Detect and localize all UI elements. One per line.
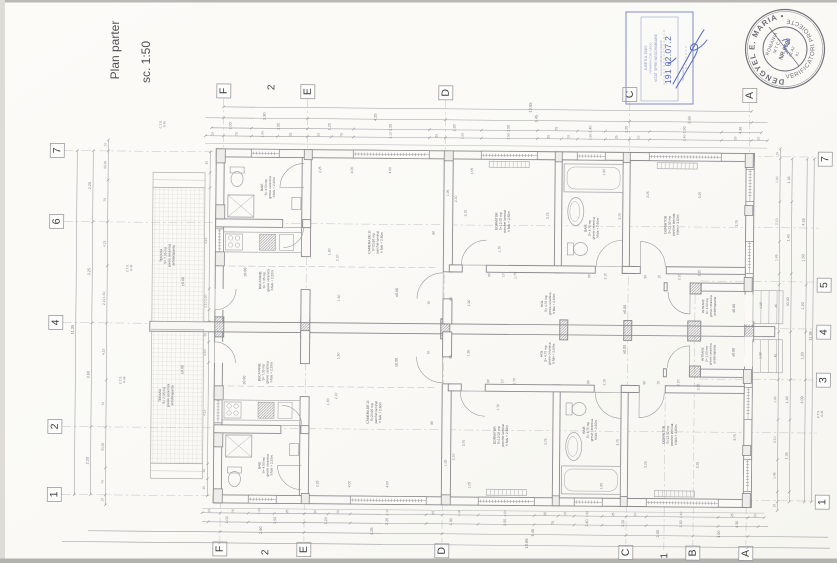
svg-text:4.30: 4.30 [738, 127, 742, 134]
svg-text:2.25: 2.25 [315, 480, 319, 487]
interior wall kitchen/living x301 [299, 397, 309, 496]
svg-text:1.00: 1.00 [460, 133, 464, 140]
svg-text:1.40: 1.40 [787, 234, 791, 241]
svg-text:2.20: 2.20 [86, 457, 90, 464]
dimension chain top row3 [212, 128, 762, 133]
dimension chain top row2 [206, 118, 768, 123]
dimension chain terrace side x209 [207, 152, 210, 496]
entrance porch top unit [753, 291, 783, 324]
axis markers right [818, 152, 832, 166]
bath2 sink [568, 197, 584, 225]
svg-text:10: 10 [756, 137, 760, 141]
party wall columns [215, 317, 224, 337]
svg-text:1.50: 1.50 [276, 123, 280, 130]
svg-text:±0.00: ±0.00 [181, 277, 185, 286]
svg-text:1.50: 1.50 [506, 125, 510, 132]
entry vestibule wall y278 [663, 369, 666, 377]
interior wall D-axis x437 [443, 159, 453, 272]
svg-text:7: 7 [51, 147, 63, 153]
svg-text:5.45: 5.45 [530, 529, 535, 537]
radiators [486, 489, 526, 495]
svg-text:JUDETUL TIMIS: JUDETUL TIMIS [644, 45, 648, 71]
svg-text:h fals + 2.20m: h fals + 2.20m [272, 177, 276, 197]
left wall terrace door unit2 [214, 342, 223, 363]
svg-text:-0.45: -0.45 [162, 121, 166, 128]
svg-text:3.50: 3.50 [687, 115, 692, 123]
svg-text:3.75: 3.75 [735, 220, 739, 227]
stamp blue scribble [782, 40, 790, 55]
svg-text:-0.45: -0.45 [820, 410, 824, 417]
svg-text:75: 75 [554, 127, 558, 131]
svg-text:1.70: 1.70 [513, 272, 517, 279]
svg-text:1.30: 1.30 [449, 518, 453, 525]
svg-text:1.30: 1.30 [759, 352, 763, 359]
right wall entrance gap bottom unit [744, 336, 753, 366]
svg-text:3.25: 3.25 [696, 462, 700, 469]
svg-text:1: 1 [48, 491, 60, 497]
blue approval stamp [626, 12, 693, 104]
svg-text:30,30: 30,30 [786, 297, 790, 306]
svg-text:90: 90 [642, 381, 646, 385]
svg-text:±0.00: ±0.00 [732, 304, 736, 313]
interior wall bath-left x554 [554, 160, 562, 273]
svg-text:1.20: 1.20 [624, 126, 628, 133]
round verifier stamp [746, 10, 825, 89]
building bottom exterior wall [213, 495, 751, 508]
svg-text:sc. 1:50: sc. 1:50 [139, 41, 153, 83]
axis markers bottom [213, 542, 227, 556]
door arcs bottom unit [460, 391, 485, 416]
svg-text:10: 10 [313, 510, 317, 514]
svg-text:1.50: 1.50 [588, 134, 592, 141]
svg-text:h fals + 2.60m: h fals + 2.60m [596, 218, 600, 238]
terrace bottom unit hatched [151, 329, 204, 463]
svg-text:-0.45: -0.45 [122, 376, 126, 383]
axis markers top [217, 84, 231, 98]
svg-text:25: 25 [730, 513, 734, 517]
svg-text:1.05: 1.05 [446, 189, 450, 196]
svg-text:2.40: 2.40 [585, 519, 589, 526]
svg-text:4: 4 [50, 319, 62, 325]
svg-text:10: 10 [100, 498, 104, 502]
svg-text:±0.00: ±0.00 [180, 365, 184, 374]
svg-text:5: 5 [818, 282, 830, 288]
svg-text:10: 10 [772, 504, 776, 508]
svg-text:65: 65 [449, 297, 453, 301]
svg-text:1.35: 1.35 [785, 452, 789, 459]
svg-text:1.30: 1.30 [467, 350, 471, 357]
svg-text:10: 10 [207, 509, 211, 513]
interior wall bath-right x622 [620, 385, 628, 498]
svg-text:3.75: 3.75 [544, 438, 548, 445]
svg-text:h fals + 2.60m: h fals + 2.60m [505, 425, 509, 446]
svg-text:4.25: 4.25 [802, 218, 806, 225]
svg-text:1.40: 1.40 [785, 396, 789, 403]
svg-text:3.25: 3.25 [87, 268, 91, 275]
svg-text:1.30: 1.30 [467, 300, 471, 307]
svg-text:10: 10 [753, 514, 757, 518]
bottom wall windows [248, 495, 276, 503]
svg-text:1.20: 1.20 [324, 517, 328, 524]
svg-text:1.60: 1.60 [327, 248, 331, 255]
svg-text:4.15: 4.15 [102, 240, 106, 247]
entrance porch bottom unit [752, 340, 782, 373]
svg-text:2.25: 2.25 [697, 270, 701, 277]
svg-text:4: 4 [818, 329, 830, 335]
svg-text:1.50: 1.50 [679, 520, 683, 527]
svg-text:25: 25 [543, 512, 547, 516]
exterior wall column accents [213, 489, 222, 503]
svg-text:h fals + 2.60m: h fals + 2.60m [676, 214, 680, 235]
terrace bottom unit step strip [150, 463, 202, 478]
bath2 tub [564, 164, 623, 193]
svg-text:1.70: 1.70 [496, 404, 500, 411]
svg-text:10: 10 [501, 273, 505, 277]
hall wall y262 [448, 384, 461, 391]
grid axis lines vertical [220, 98, 750, 551]
svg-text:45: 45 [774, 354, 778, 358]
svg-text:10: 10 [316, 133, 320, 137]
radiators [489, 161, 529, 167]
svg-text:2.10: 2.10 [603, 273, 607, 280]
svg-text:30: 30 [205, 161, 209, 165]
svg-text:4.00: 4.00 [347, 481, 351, 488]
svg-text:4.25: 4.25 [373, 113, 378, 121]
svg-text:A: A [744, 92, 756, 99]
svg-text:4.00: 4.00 [385, 481, 389, 488]
svg-text:1.05: 1.05 [467, 482, 471, 489]
svg-text:E: E [302, 88, 314, 95]
svg-text:6: 6 [51, 218, 63, 224]
svg-text:1.00: 1.00 [260, 131, 264, 138]
svg-text:±0.00: ±0.00 [623, 345, 627, 354]
blue signature flourish [668, 30, 707, 88]
svg-text:30,30: 30,30 [101, 443, 105, 451]
svg-text:25: 25 [285, 509, 289, 513]
svg-text:10: 10 [775, 152, 779, 156]
dimension chain bottom row1 small [202, 513, 764, 518]
svg-text:90: 90 [643, 275, 647, 279]
axis markers left [50, 143, 64, 157]
svg-text:h fals + 2.60m: h fals + 2.60m [378, 402, 382, 423]
dimension chain right col3 [804, 159, 807, 502]
svg-text:1.90: 1.90 [682, 126, 686, 133]
svg-text:3.60: 3.60 [86, 371, 90, 378]
dimension chain right col2 [789, 159, 792, 502]
svg-text:2.90: 2.90 [258, 526, 263, 534]
kitchen counter [223, 232, 301, 253]
svg-text:75: 75 [234, 132, 238, 136]
svg-text:25: 25 [614, 135, 618, 139]
svg-text:h fals + 2.60m: h fals + 2.60m [674, 424, 678, 445]
hall wall y262 [449, 265, 462, 272]
svg-text:1.00: 1.00 [225, 516, 229, 523]
svg-text:h fals + 2.20m: h fals + 2.20m [269, 362, 273, 382]
svg-text:1.90: 1.90 [599, 483, 603, 490]
svg-text:2.10: 2.10 [773, 436, 777, 443]
svg-text:10: 10 [636, 136, 640, 140]
svg-text:10: 10 [566, 135, 570, 139]
svg-text:2.25: 2.25 [696, 384, 700, 391]
svg-text:2.40: 2.40 [682, 135, 686, 142]
svg-text:1.50: 1.50 [506, 133, 510, 140]
svg-text:1.20: 1.20 [801, 302, 805, 309]
svg-text:1.50: 1.50 [337, 294, 341, 301]
svg-text:2: 2 [49, 423, 61, 429]
svg-text:3.75: 3.75 [464, 210, 468, 217]
svg-text:191 02.07.2: 191 02.07.2 [663, 36, 673, 84]
interior wall kitchen/living x301 [301, 158, 311, 257]
svg-text:4.00: 4.00 [350, 167, 354, 174]
svg-text:3.25: 3.25 [644, 461, 648, 468]
svg-text:1.00: 1.00 [228, 122, 232, 129]
bath1 shower [228, 195, 254, 217]
svg-text:3.25: 3.25 [698, 192, 702, 199]
svg-text:7: 7 [819, 156, 831, 162]
svg-text:h fals + 2.60m: h fals + 2.60m [552, 293, 556, 313]
dimension chain left col1 overall 11.35 [74, 151, 77, 495]
svg-text:1.70: 1.70 [497, 246, 501, 253]
svg-text:4.15: 4.15 [102, 348, 106, 355]
exterior wall column accents [216, 149, 225, 163]
svg-text:90: 90 [486, 379, 490, 383]
svg-text:3.75: 3.75 [618, 213, 622, 220]
svg-text:1: 1 [816, 499, 828, 505]
svg-text:3.75: 3.75 [616, 439, 620, 446]
svg-text:2.10: 2.10 [335, 254, 339, 261]
svg-text:11.35: 11.35 [70, 325, 75, 334]
svg-text:antiderapanta: antiderapanta [713, 296, 717, 315]
interior wall bath-left x554 [552, 385, 560, 498]
left wall kitchen window bottom unit [214, 393, 222, 423]
svg-text:30,30: 30,30 [103, 161, 107, 169]
svg-text:1.50: 1.50 [102, 291, 106, 298]
svg-text:h fals + 2.60m: h fals + 2.60m [594, 420, 598, 440]
terrace top unit hatched [152, 187, 205, 321]
svg-text:1.00: 1.00 [775, 176, 779, 183]
svg-text:65: 65 [448, 355, 452, 359]
left wall terrace door unit1 [214, 289, 223, 310]
svg-text:25: 25 [434, 134, 438, 138]
svg-text:1.45: 1.45 [774, 254, 778, 261]
eave line below bottom wall [202, 508, 764, 513]
left wall kitchen window top unit [215, 229, 223, 259]
svg-text:2.10: 2.10 [454, 196, 458, 203]
svg-text:2.10: 2.10 [676, 379, 680, 386]
svg-text:45: 45 [774, 304, 778, 308]
bath2 tub [561, 466, 620, 495]
title: Plan parter sc 1:50 [108, 21, 153, 83]
svg-text:Plan parter: Plan parter [108, 21, 122, 80]
svg-text:C: C [620, 548, 632, 556]
svg-text:25: 25 [202, 486, 206, 490]
svg-text:1.50: 1.50 [273, 517, 277, 524]
svg-text:5.45: 5.45 [534, 115, 539, 123]
svg-text:±0.00: ±0.00 [394, 358, 398, 367]
svg-text:2.40: 2.40 [588, 125, 592, 132]
svg-text:4.00: 4.00 [800, 396, 804, 403]
svg-text:4.30: 4.30 [735, 521, 739, 528]
svg-text:2.10: 2.10 [388, 132, 392, 139]
svg-text:1.60: 1.60 [326, 398, 330, 405]
svg-text:4.00: 4.00 [388, 167, 392, 174]
svg-text:70: 70 [101, 402, 105, 406]
dimension chain top row4 small [205, 136, 767, 141]
svg-text:2.10: 2.10 [334, 392, 338, 399]
svg-text:1.35: 1.35 [787, 176, 791, 183]
svg-text:antiderapanta: antiderapanta [171, 245, 175, 265]
door arcs top unit [461, 240, 486, 265]
entry vestibule wall y278 [664, 283, 667, 291]
svg-text:90: 90 [587, 274, 591, 278]
right wall windows [746, 169, 754, 201]
svg-text:A: A [740, 550, 752, 557]
svg-text:2.10: 2.10 [452, 453, 456, 460]
dimension chain bottom row2 [202, 522, 768, 527]
bath2 toilet [566, 403, 572, 415]
svg-text:10: 10 [633, 512, 637, 516]
grid axis lines horizontal [61, 151, 819, 502]
svg-text:70: 70 [427, 351, 431, 355]
svg-text:1.50: 1.50 [716, 530, 721, 538]
terrace top unit step strip [153, 172, 205, 187]
svg-text:1.45: 1.45 [772, 472, 776, 479]
svg-text:1.05: 1.05 [444, 459, 448, 466]
svg-text:70: 70 [103, 198, 107, 202]
svg-text:h fals + 2.60m: h fals + 2.60m [507, 211, 511, 232]
dimension chain right col1 small [777, 149, 780, 511]
svg-text:3.75: 3.75 [462, 440, 466, 447]
scan edge bottom [0, 559, 837, 563]
svg-text:2.00: 2.00 [655, 529, 660, 537]
svg-text:25: 25 [431, 511, 435, 515]
bath1 toilet [231, 171, 243, 186]
svg-text:E: E [298, 546, 310, 553]
svg-text:F: F [214, 546, 226, 553]
svg-text:1.20: 1.20 [801, 352, 805, 359]
interior wall bath-right x622 [622, 160, 630, 273]
svg-text:2: 2 [266, 84, 277, 90]
svg-text:2.25: 2.25 [385, 518, 389, 525]
svg-text:±0.00: ±0.00 [732, 348, 736, 357]
bath/kitchen divider y218 [216, 219, 283, 228]
svg-text:F: F [218, 88, 230, 95]
interior wall D-axis x437 [441, 384, 451, 497]
bath1 sink [290, 443, 299, 455]
central party wall [150, 321, 775, 336]
svg-text:±0.00: ±0.00 [623, 305, 627, 314]
bath2 toilet [567, 243, 573, 255]
dimension chain top overall 13.65 [224, 107, 752, 112]
svg-text:antiderapanta: antiderapanta [712, 344, 716, 363]
svg-text:h fals + 2.60m: h fals + 2.60m [551, 343, 555, 363]
svg-text:±0.00: ±0.00 [395, 288, 399, 297]
stamp pen line [769, 27, 799, 66]
svg-text:25: 25 [288, 132, 292, 136]
svg-text:1.20: 1.20 [621, 520, 625, 527]
svg-text:1.05: 1.05 [470, 168, 474, 175]
svg-text:2.25: 2.25 [388, 124, 392, 131]
svg-text:10: 10 [500, 379, 504, 383]
dimension chain left col3 [105, 140, 108, 505]
svg-text:80: 80 [432, 231, 436, 235]
building left exterior wall [213, 149, 224, 503]
bath/kitchen divider y218 [214, 425, 281, 434]
svg-text:10: 10 [563, 512, 567, 516]
svg-text:1.55: 1.55 [503, 519, 507, 526]
svg-text:80: 80 [430, 421, 434, 425]
svg-text:1: 1 [659, 552, 670, 558]
svg-text:1.50: 1.50 [801, 254, 805, 261]
svg-text:25: 25 [546, 135, 550, 139]
svg-text:70: 70 [427, 301, 431, 305]
svg-text:13.65: 13.65 [524, 538, 529, 549]
svg-text:90: 90 [586, 380, 590, 384]
svg-text:h fals + 2.60m: h fals + 2.60m [380, 232, 384, 253]
svg-text:2.10: 2.10 [102, 298, 106, 305]
svg-text:25: 25 [733, 136, 737, 140]
svg-text:1.90: 1.90 [602, 169, 606, 176]
bath1 toilet [228, 471, 240, 486]
svg-text:75: 75 [336, 510, 340, 514]
svg-text:3.75: 3.75 [733, 434, 737, 441]
svg-text:75: 75 [551, 521, 555, 525]
building top exterior wall [216, 149, 754, 162]
dimension chain bottom row3 [88, 531, 828, 537]
dimension chain right col4 overall 11.35 [811, 159, 814, 502]
bath2 sink [566, 432, 582, 460]
svg-text:B: B [687, 549, 699, 556]
svg-text:3.75: 3.75 [546, 212, 550, 219]
kitchen counter [222, 400, 300, 421]
svg-text:±0.00: ±0.00 [243, 268, 247, 277]
svg-text:1.00: 1.00 [773, 396, 777, 403]
svg-text:1.70: 1.70 [512, 378, 516, 385]
eave line above top wall [205, 143, 767, 148]
svg-text:1.30: 1.30 [759, 302, 763, 309]
svg-text:75: 75 [339, 133, 343, 137]
scan edge left [0, 0, 5, 563]
svg-text:13.65: 13.65 [528, 102, 533, 113]
top wall windows [251, 149, 279, 157]
svg-text:2.10: 2.10 [775, 218, 779, 225]
svg-text:-0.45: -0.45 [129, 264, 133, 271]
right wall entrance gap top unit [744, 294, 753, 324]
svg-text:2.10: 2.10 [677, 273, 681, 280]
bath1 shower [226, 435, 252, 457]
svg-text:h fals + 2.20m: h fals + 2.20m [269, 455, 273, 475]
svg-text:3: 3 [817, 377, 829, 383]
svg-text:3.25: 3.25 [646, 191, 650, 198]
bath1 sink [292, 197, 301, 209]
svg-text:25: 25 [611, 512, 615, 516]
dimension chain left col2 [90, 151, 93, 495]
svg-text:1.50: 1.50 [336, 352, 340, 359]
svg-text:2.90: 2.90 [262, 112, 267, 120]
svg-text:±0.00: ±0.00 [242, 376, 246, 385]
svg-text:1.20: 1.20 [327, 123, 331, 130]
svg-text:10: 10 [103, 143, 107, 147]
svg-text:PRIMARIA COM. GIROC: PRIMARIA COM. GIROC [649, 42, 653, 73]
svg-text:2.10: 2.10 [602, 379, 606, 386]
svg-text:11.35: 11.35 [808, 331, 813, 340]
svg-text:2.25: 2.25 [318, 166, 322, 173]
svg-text:antiderapanta: antiderapanta [170, 385, 174, 405]
svg-text:10: 10 [656, 381, 660, 385]
svg-text:1.30: 1.30 [452, 124, 456, 131]
beam dash line top unit [218, 266, 437, 268]
svg-text:2: 2 [260, 549, 271, 555]
